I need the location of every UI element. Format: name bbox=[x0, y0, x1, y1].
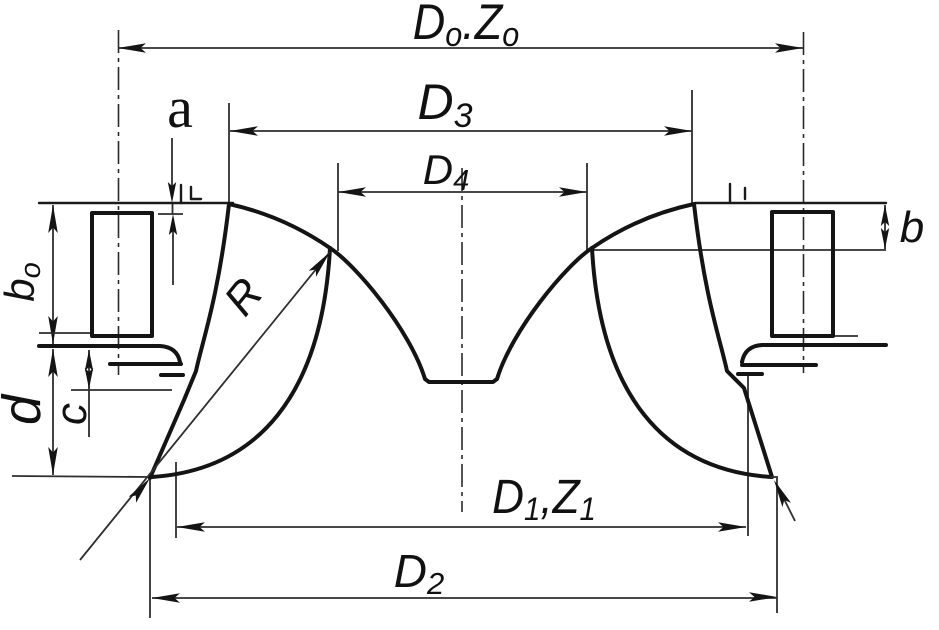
dimension D2 line bbox=[150, 478, 777, 618]
bottom reference line left bbox=[12, 476, 150, 477]
keyway bottom extension right bbox=[833, 335, 858, 337]
hub flange left top bbox=[39, 346, 180, 362]
top reference line left bbox=[39, 202, 233, 204]
dimension b0 bbox=[48, 205, 58, 344]
dimension D0.Z0 line bbox=[118, 43, 803, 53]
top reference line right bbox=[695, 202, 886, 204]
hub flange left lower edge bbox=[110, 362, 181, 366]
label D1,Z1 bbox=[492, 469, 596, 527]
dimension D3 line bbox=[229, 90, 692, 203]
label D0.Z0 bbox=[413, 0, 520, 53]
hub flange right lower edge bbox=[742, 363, 816, 367]
bottom corner link right bbox=[770, 476, 778, 478]
svg-text:b: b bbox=[900, 203, 924, 252]
b reference line bbox=[589, 249, 886, 251]
tip edge stub right 1 bbox=[729, 184, 731, 202]
corner leader right bbox=[770, 478, 795, 521]
svg-text:d: d bbox=[0, 393, 52, 425]
rim inner arc left bbox=[152, 248, 330, 477]
hub flange left step bbox=[161, 373, 183, 377]
dimension c bbox=[85, 350, 93, 437]
centerline right bbox=[803, 32, 805, 373]
keyway rectangle left bbox=[92, 213, 152, 336]
dimension D4 line bbox=[338, 163, 587, 251]
c reference line bbox=[71, 389, 172, 391]
left tooth left flank bbox=[150, 204, 229, 478]
right tooth crest arc bbox=[592, 204, 694, 248]
keyway rectangle right bbox=[772, 212, 833, 336]
dimension a upper arrow bbox=[168, 138, 176, 203]
hub flange right step bbox=[738, 372, 762, 376]
tip edge stub left 1 bbox=[180, 185, 182, 203]
svg-text:a: a bbox=[167, 75, 193, 140]
dimension b bbox=[881, 205, 889, 249]
centerline left bbox=[118, 30, 120, 375]
centerline central axis bbox=[461, 168, 463, 512]
dimension D1,Z1 line bbox=[176, 376, 748, 538]
right tooth right flank bbox=[694, 204, 772, 477]
dimension d bbox=[48, 349, 58, 475]
a bottom reference line bbox=[158, 213, 183, 215]
left tooth crest arc bbox=[229, 204, 330, 248]
svg-text:c: c bbox=[47, 403, 96, 425]
tip edge stub right 2 bbox=[744, 188, 746, 199]
hub flange right top bbox=[742, 345, 886, 362]
dimension a lower arrow bbox=[169, 214, 177, 285]
radius R line bbox=[80, 249, 334, 560]
keyway bottom extension left bbox=[39, 332, 91, 334]
a gap tick bbox=[172, 203, 174, 214]
tip edge stub left 2 bbox=[190, 187, 192, 199]
rim inner arc right bbox=[592, 248, 771, 477]
throat profile (valley) bbox=[330, 248, 592, 382]
